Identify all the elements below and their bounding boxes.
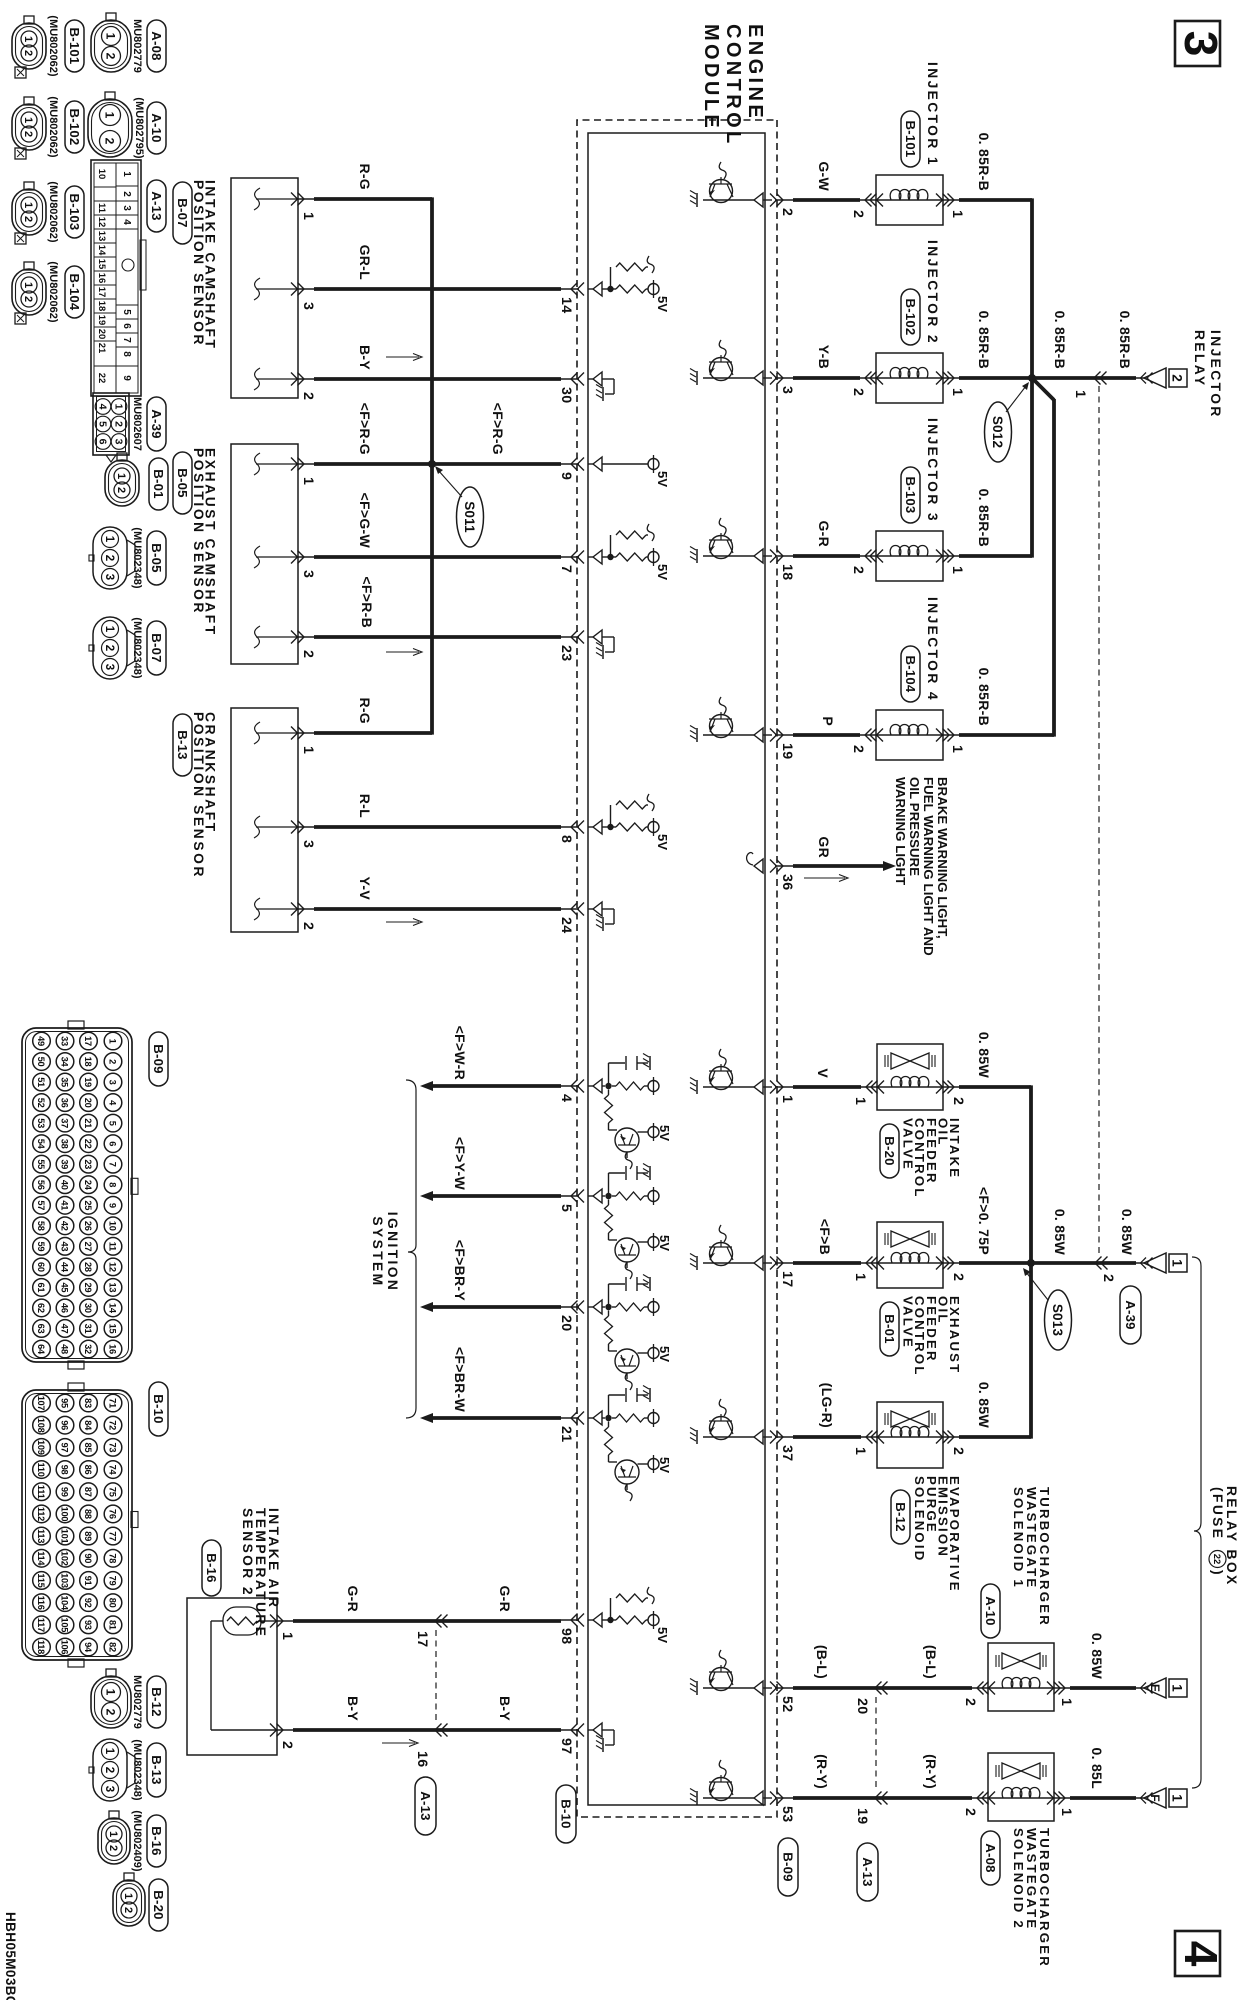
label R-Y lower	[814, 1754, 830, 1789]
svg-text:1: 1	[107, 1831, 119, 1837]
svg-text:85: 85	[83, 1442, 93, 1452]
svg-text:1: 1	[300, 477, 316, 485]
label R-G crank	[357, 697, 373, 724]
svg-text:2: 2	[107, 1845, 119, 1851]
svg-text:2: 2	[22, 216, 34, 222]
svg-text:(MU802409): (MU802409)	[131, 1810, 143, 1871]
connector capsule B-07	[173, 182, 192, 244]
svg-text:1: 1	[300, 746, 316, 754]
svg-text:1: 1	[279, 1632, 295, 1640]
svg-text:B-20: B-20	[882, 1136, 897, 1165]
svg-text:24: 24	[83, 1180, 93, 1191]
label 0.85W valve B-20	[976, 1032, 992, 1079]
svg-text:2: 2	[22, 296, 34, 302]
svg-text:59: 59	[36, 1241, 46, 1251]
label F R-G near sensor	[357, 403, 373, 455]
label F W-R	[452, 1026, 468, 1080]
svg-text:G-R: G-R	[816, 520, 832, 547]
svg-text:R-G: R-G	[357, 163, 373, 190]
connector capsule A-08 solenoid2	[981, 1831, 1000, 1885]
svg-text:6: 6	[96, 439, 108, 445]
svg-text:B-05: B-05	[149, 543, 164, 572]
svg-text:B-05: B-05	[175, 468, 190, 497]
svg-text:(MU802795): (MU802795)	[133, 97, 145, 158]
svg-text:44: 44	[60, 1262, 70, 1273]
svg-text:6: 6	[108, 1141, 118, 1146]
svg-text:A-08: A-08	[149, 31, 164, 60]
svg-text:B-16: B-16	[149, 1826, 164, 1855]
wire injector bus B	[1052, 399, 1056, 737]
ECM top pin 2 bracket	[770, 194, 795, 217]
label 0.85W valve B-12	[976, 1382, 992, 1429]
svg-text:74: 74	[108, 1465, 118, 1476]
junction S011 callout	[435, 466, 484, 547]
inline break A-13 pin16	[435, 1724, 448, 1737]
svg-text:53: 53	[779, 1806, 795, 1822]
svg-text:<F>R-G: <F>R-G	[357, 403, 373, 455]
svg-text:79: 79	[108, 1576, 118, 1586]
svg-text:5V: 5V	[655, 564, 670, 580]
ECM top pin 36 bracket	[770, 860, 795, 891]
ECM ground hook at pin 97	[588, 1723, 614, 1752]
svg-text:TURBOCHARGER: TURBOCHARGER	[1037, 1828, 1052, 1968]
label V	[815, 1068, 831, 1078]
svg-text:48: 48	[60, 1344, 70, 1354]
svg-text:8: 8	[108, 1182, 118, 1187]
injector 1 (B-101) pin 1 label	[949, 210, 965, 218]
ECM ignition driver at pin 4	[588, 1054, 672, 1170]
svg-text:RELAY: RELAY	[1192, 330, 1207, 388]
svg-text:17: 17	[83, 1036, 93, 1046]
wire valve bus	[1029, 1085, 1033, 1438]
svg-text:9: 9	[108, 1203, 118, 1208]
svg-text:73: 73	[108, 1442, 118, 1452]
connector legend B-102	[12, 96, 84, 159]
label INJECTOR 3	[925, 418, 940, 523]
connector legend B-07 legend	[89, 617, 166, 679]
svg-text:MU802779: MU802779	[131, 19, 143, 73]
svg-text:(MU802348): (MU802348)	[131, 1739, 143, 1800]
svg-text:B-10: B-10	[151, 1394, 166, 1423]
intake air temperature sensor 2 box B-16	[187, 1598, 293, 1755]
svg-text:8: 8	[121, 351, 132, 357]
svg-text:(MU802062): (MU802062)	[47, 96, 59, 157]
wire GR-L intake pin3 to ECM pin14	[314, 287, 561, 291]
ECM pull-up circuit at pin 7	[588, 524, 670, 580]
label F B	[817, 1219, 833, 1255]
svg-text:(LG-R): (LG-R)	[819, 1383, 835, 1428]
connector legend B-05	[89, 527, 166, 589]
svg-text:1: 1	[22, 117, 34, 123]
evaporative emission purge solenoid box B-12	[861, 1402, 959, 1468]
svg-text:2: 2	[962, 1698, 978, 1706]
ECM bottom pin 24 bracket	[558, 903, 584, 934]
svg-text:52: 52	[36, 1098, 46, 1108]
svg-text:63: 63	[36, 1324, 46, 1334]
arrow direction F R-B	[386, 649, 422, 656]
injector 2 (B-102) pin 1 label	[949, 388, 965, 396]
svg-text:5V: 5V	[655, 834, 670, 850]
svg-text:B-07: B-07	[149, 633, 164, 662]
wire solenoid1 to relay E	[1070, 1686, 1136, 1690]
svg-text:82: 82	[108, 1642, 118, 1652]
svg-text:39: 39	[60, 1159, 70, 1169]
svg-text:MU802779: MU802779	[131, 1675, 143, 1729]
svg-text:1: 1	[1058, 1698, 1074, 1706]
label GR-L	[357, 245, 373, 281]
svg-text:5V: 5V	[657, 1346, 672, 1362]
svg-text:2: 2	[850, 745, 866, 753]
svg-text:2: 2	[950, 1273, 966, 1281]
wire bus R-G horizontal	[430, 197, 434, 734]
svg-text:R-L: R-L	[357, 794, 373, 818]
intake camshaft position sensor box B-07	[231, 178, 314, 398]
label R-Y upper	[923, 1754, 939, 1789]
exhaust cam sensor pin 3 label	[300, 570, 316, 578]
wire LG-R ECM pin37 to valve B-12	[793, 1435, 1031, 1439]
svg-text:B-102: B-102	[903, 299, 918, 336]
svg-text:G-R: G-R	[345, 1585, 361, 1612]
label G-R temp upper	[497, 1585, 513, 1612]
svg-text:1: 1	[1058, 1808, 1074, 1816]
ECM bottom pin 20 bracket	[558, 1301, 584, 1332]
svg-text:7: 7	[121, 337, 132, 343]
label LG-R	[819, 1383, 835, 1428]
label F R-G near ECM	[490, 403, 506, 455]
svg-text:3: 3	[103, 1786, 115, 1792]
svg-text:2: 2	[108, 1059, 118, 1064]
temp sensor pin 2 label	[279, 1741, 295, 1749]
connector legend A-13 capsule	[147, 180, 166, 232]
svg-text:29: 29	[83, 1283, 93, 1293]
label CRANKSHAFT POSITION SENSOR	[191, 712, 218, 879]
svg-text:5V: 5V	[657, 1125, 672, 1141]
svg-text:17: 17	[414, 1631, 430, 1647]
svg-text:26: 26	[83, 1221, 93, 1231]
ECM 5V supply at pin 9	[588, 455, 670, 487]
svg-text:101: 101	[60, 1529, 70, 1544]
svg-text:P: P	[820, 716, 836, 726]
exhaust oil feeder control valve box B-01	[861, 1222, 959, 1288]
svg-text:8: 8	[558, 835, 574, 843]
svg-text:17: 17	[96, 287, 107, 298]
ECM bottom pin 9 bracket	[558, 458, 584, 481]
svg-text:55: 55	[36, 1159, 46, 1169]
svg-text:1: 1	[1170, 1794, 1185, 1802]
svg-text:111: 111	[36, 1485, 46, 1499]
label R-L	[357, 794, 373, 818]
ECM ignition driver at pin 5	[588, 1164, 672, 1280]
wire G-R ECM pin98 to temp sensor	[293, 1619, 561, 1623]
svg-text:Y-V: Y-V	[357, 877, 373, 901]
inline break A-13 pin17	[435, 1615, 448, 1628]
svg-text:36: 36	[60, 1098, 70, 1108]
inline connector break on relay feed	[1094, 372, 1107, 385]
valve B-20 pin 1 label	[852, 1097, 868, 1105]
svg-text:IGNITION: IGNITION	[385, 1212, 400, 1293]
svg-text:(MU802062): (MU802062)	[47, 15, 59, 76]
svg-text:2: 2	[1170, 374, 1185, 382]
svg-text:R-G: R-G	[357, 697, 373, 724]
svg-text:19: 19	[779, 743, 795, 759]
label 0.85R-B injector3	[976, 489, 992, 547]
intake cam sensor pin 3 label	[300, 302, 316, 310]
svg-text:S013: S013	[1050, 1304, 1065, 1337]
injector 3 (B-103) box	[860, 531, 959, 581]
svg-text:2: 2	[950, 1447, 966, 1455]
svg-text:B-Y: B-Y	[345, 1696, 361, 1721]
svg-text:93: 93	[83, 1620, 93, 1630]
label 0.85W S013 lower	[1052, 1209, 1068, 1256]
ECM bottom pin 7 bracket	[558, 551, 584, 574]
svg-text:10: 10	[108, 1221, 118, 1231]
exhaust cam sensor pin 2 label	[300, 650, 316, 658]
solenoid2 pin 1 label	[1058, 1808, 1074, 1816]
svg-text:88: 88	[83, 1509, 93, 1519]
svg-text:97: 97	[558, 1738, 574, 1754]
svg-text:2: 2	[22, 50, 34, 56]
svg-text:109: 109	[36, 1440, 46, 1455]
valve B-12 pin 1 label	[852, 1447, 868, 1455]
svg-text:2: 2	[279, 1741, 295, 1749]
svg-text:105: 105	[60, 1618, 70, 1633]
svg-text:4: 4	[121, 219, 132, 225]
label 0.85R-B injector1	[976, 133, 992, 191]
svg-text:<F>B: <F>B	[817, 1219, 833, 1255]
label 0.85L solenoid2	[1089, 1748, 1105, 1790]
connector capsule B-104	[901, 646, 920, 702]
arrow direction GR	[804, 875, 848, 882]
label R-G intake	[357, 163, 373, 190]
svg-text:B-10: B-10	[558, 1799, 573, 1828]
svg-text:A-13: A-13	[149, 191, 164, 220]
svg-text:(B-L): (B-L)	[814, 1645, 830, 1679]
svg-text:INJECTOR 4: INJECTOR 4	[925, 597, 940, 702]
svg-text:115: 115	[36, 1573, 46, 1587]
svg-text:18: 18	[779, 564, 795, 580]
svg-text:33: 33	[60, 1036, 70, 1046]
svg-text:36: 36	[779, 874, 795, 890]
svg-text:87: 87	[83, 1487, 93, 1497]
svg-text:4: 4	[1175, 1941, 1227, 1967]
svg-text:<F>W-R: <F>W-R	[452, 1026, 468, 1080]
svg-text:0. 85R-B: 0. 85R-B	[976, 489, 992, 547]
ECM driver circuit at pin 18	[690, 518, 772, 563]
label 0.85R-B injector2	[976, 311, 992, 369]
svg-text:E: E	[1148, 1684, 1162, 1692]
svg-text:81: 81	[108, 1620, 118, 1630]
wire G-R ECM pin18 to injector3	[793, 554, 1032, 558]
ECM driver circuit at pin 19	[690, 697, 772, 742]
svg-text:102: 102	[60, 1551, 70, 1566]
svg-text:ENGINE: ENGINE	[744, 24, 766, 121]
wire B-Y intake pin2 to ECM pin30	[314, 377, 561, 381]
svg-text:(MU802348): (MU802348)	[131, 527, 143, 588]
svg-text:1: 1	[22, 282, 34, 288]
svg-text:B-01: B-01	[151, 469, 166, 498]
svg-text:SENSOR 2: SENSOR 2	[240, 1508, 255, 1597]
svg-text:MODULE: MODULE	[700, 24, 722, 131]
label EVAPORATIVE EMISSION PURGE SOLENOID	[912, 1476, 962, 1593]
turbocharger wastegate solenoid 2 box A-08	[972, 1753, 1070, 1821]
ECM bottom pin 8 bracket	[558, 821, 584, 844]
svg-text:80: 80	[108, 1598, 118, 1608]
svg-text:POSITION SENSOR: POSITION SENSOR	[191, 712, 206, 879]
svg-text:37: 37	[779, 1445, 795, 1461]
svg-text:5: 5	[121, 309, 132, 315]
svg-text:INJECTOR 1: INJECTOR 1	[925, 62, 940, 167]
svg-text:84: 84	[83, 1420, 93, 1431]
svg-text:F: F	[1148, 1794, 1162, 1801]
svg-text:2: 2	[104, 1709, 118, 1716]
wire F B ECM pin17 to valve B-01	[793, 1261, 1031, 1265]
ECM driver circuit at pin 1	[690, 1049, 772, 1094]
wire F R-B exhaust pin2 to ECM pin23	[314, 635, 561, 639]
svg-text:47: 47	[60, 1324, 70, 1334]
label EXHAUST CAMSHAFT POSITION SENSOR	[191, 448, 218, 637]
dashed link A-13 16-17	[435, 1630, 437, 1721]
injector 1 (B-101) box	[860, 175, 959, 225]
connector capsule A-10	[981, 1584, 1000, 1638]
svg-text:24: 24	[558, 917, 574, 933]
ECM pull-up circuit at pin 8	[588, 794, 670, 850]
svg-text:52: 52	[779, 1696, 795, 1712]
svg-text:<F>0. 75P: <F>0. 75P	[976, 1187, 992, 1255]
wire F G-W exhaust pin3 to ECM pin7	[314, 555, 561, 559]
svg-text:1: 1	[852, 1273, 868, 1281]
ECM top pin 53 bracket	[770, 1792, 795, 1823]
junction S011 dot	[428, 460, 436, 468]
svg-text:SYSTEM: SYSTEM	[370, 1216, 385, 1287]
svg-text:(R-Y): (R-Y)	[923, 1754, 939, 1789]
svg-text:21: 21	[96, 343, 107, 354]
svg-text:3: 3	[103, 574, 115, 580]
svg-text:B-20: B-20	[151, 1890, 166, 1919]
ECM top pin 17 bracket	[770, 1257, 795, 1288]
svg-text:62: 62	[36, 1303, 46, 1313]
svg-text:76: 76	[108, 1509, 118, 1519]
svg-text:B-104: B-104	[903, 656, 918, 693]
ECM top pin 3 bracket	[770, 372, 795, 395]
ECM inner solid box	[588, 133, 765, 1805]
wire ignition output 21	[420, 1413, 561, 1423]
svg-text:RELAY BOX: RELAY BOX	[1224, 1486, 1239, 1587]
connector face B-10 48pin	[22, 1383, 138, 1667]
svg-text:10: 10	[96, 169, 107, 180]
svg-text:1: 1	[112, 404, 124, 410]
svg-text:VALVE: VALVE	[901, 1118, 916, 1171]
svg-text:108: 108	[36, 1418, 46, 1433]
injector 3 (B-103) pin 2 label	[850, 566, 866, 574]
svg-text:83: 83	[83, 1398, 93, 1408]
ECM ground hook at pin 24	[588, 902, 614, 931]
svg-text:103: 103	[60, 1573, 70, 1588]
svg-text:16: 16	[96, 273, 107, 284]
connector capsule B-12	[891, 1490, 910, 1544]
svg-text:106: 106	[60, 1640, 70, 1655]
label G-R temp lower	[345, 1585, 361, 1612]
label TURBOCHARGER WASTEGATE SOLENOID 1	[1011, 1487, 1052, 1627]
svg-text:1: 1	[22, 202, 34, 208]
svg-text:2: 2	[300, 922, 316, 930]
svg-text:A-39: A-39	[149, 409, 164, 438]
svg-text:B-101: B-101	[67, 28, 82, 65]
label INJECTOR 4	[925, 597, 940, 702]
svg-text:BRAKE WARNING LIGHT,: BRAKE WARNING LIGHT,	[935, 777, 950, 939]
ECM bottom pin 21 bracket	[558, 1412, 584, 1443]
ECM ignition driver at pin 20	[588, 1275, 672, 1391]
solenoid2 pin 2 label	[962, 1808, 978, 1816]
inline break A-13 pin19	[875, 1792, 888, 1805]
ECM ignition driver at pin 21	[588, 1386, 672, 1502]
svg-text:14: 14	[108, 1303, 118, 1314]
ECM top pin 1 bracket	[770, 1081, 795, 1104]
ECM top pin 52 bracket	[770, 1682, 795, 1713]
connector capsule B-09 legend	[149, 1032, 168, 1086]
svg-text:2: 2	[103, 555, 115, 561]
svg-text:54: 54	[36, 1139, 46, 1150]
svg-text:2: 2	[22, 131, 34, 137]
ECM dashed boundary	[577, 120, 777, 1817]
svg-text:INJECTOR 3: INJECTOR 3	[925, 418, 940, 523]
svg-text:27: 27	[83, 1241, 93, 1251]
label 0.85W S013 upper	[1119, 1209, 1135, 1256]
svg-text:4: 4	[96, 404, 108, 410]
label 19 break	[854, 1808, 870, 1824]
svg-text:35: 35	[60, 1077, 70, 1087]
svg-text:15: 15	[96, 259, 107, 270]
label 17 break	[414, 1631, 430, 1647]
svg-text:11: 11	[96, 203, 107, 214]
svg-text:14: 14	[96, 245, 107, 256]
svg-text:B-07: B-07	[175, 198, 190, 227]
connector capsule B-10 legend	[149, 1382, 168, 1436]
svg-text:(R-Y): (R-Y)	[814, 1754, 830, 1789]
svg-text:5: 5	[558, 1204, 574, 1212]
label INTAKE CAMSHAFT POSITION SENSOR	[191, 180, 218, 351]
ECM ground hook at pin 30	[588, 372, 614, 401]
svg-text:POSITION SENSOR: POSITION SENSOR	[191, 448, 206, 615]
label A-39 pin 1	[1072, 390, 1088, 398]
injector 4 (B-104) box	[860, 710, 959, 760]
svg-text:40: 40	[60, 1180, 70, 1190]
connector ref B-10 at pin 97	[556, 1785, 576, 1843]
svg-text:5V: 5V	[657, 1457, 672, 1473]
svg-text:3: 3	[779, 386, 795, 394]
ignition system brace	[406, 1080, 416, 1418]
label INJECTOR 1	[925, 62, 940, 167]
ECM bottom pin 4 bracket	[558, 1080, 584, 1103]
svg-text:HBH05M03BC: HBH05M03BC	[3, 1912, 18, 2000]
svg-text:1: 1	[852, 1447, 868, 1455]
svg-text:S012: S012	[990, 416, 1005, 448]
svg-text:3: 3	[300, 570, 316, 578]
svg-text:28: 28	[83, 1262, 93, 1272]
intake cam sensor pin 1 label	[300, 212, 316, 220]
svg-text:5V: 5V	[655, 296, 670, 312]
svg-text:B-09: B-09	[780, 1852, 795, 1881]
svg-text:100: 100	[60, 1507, 70, 1522]
svg-text:118: 118	[36, 1640, 46, 1654]
svg-text:OIL PRESSURE: OIL PRESSURE	[907, 777, 922, 876]
svg-text:18: 18	[96, 301, 107, 312]
svg-text:1: 1	[22, 36, 34, 42]
svg-text:51: 51	[36, 1077, 46, 1087]
svg-text:14: 14	[558, 297, 574, 313]
svg-text:16: 16	[414, 1751, 430, 1767]
injector 4 (B-104) pin 2 label	[850, 745, 866, 753]
ECM pull-up circuit at pin 98	[588, 1587, 670, 1643]
